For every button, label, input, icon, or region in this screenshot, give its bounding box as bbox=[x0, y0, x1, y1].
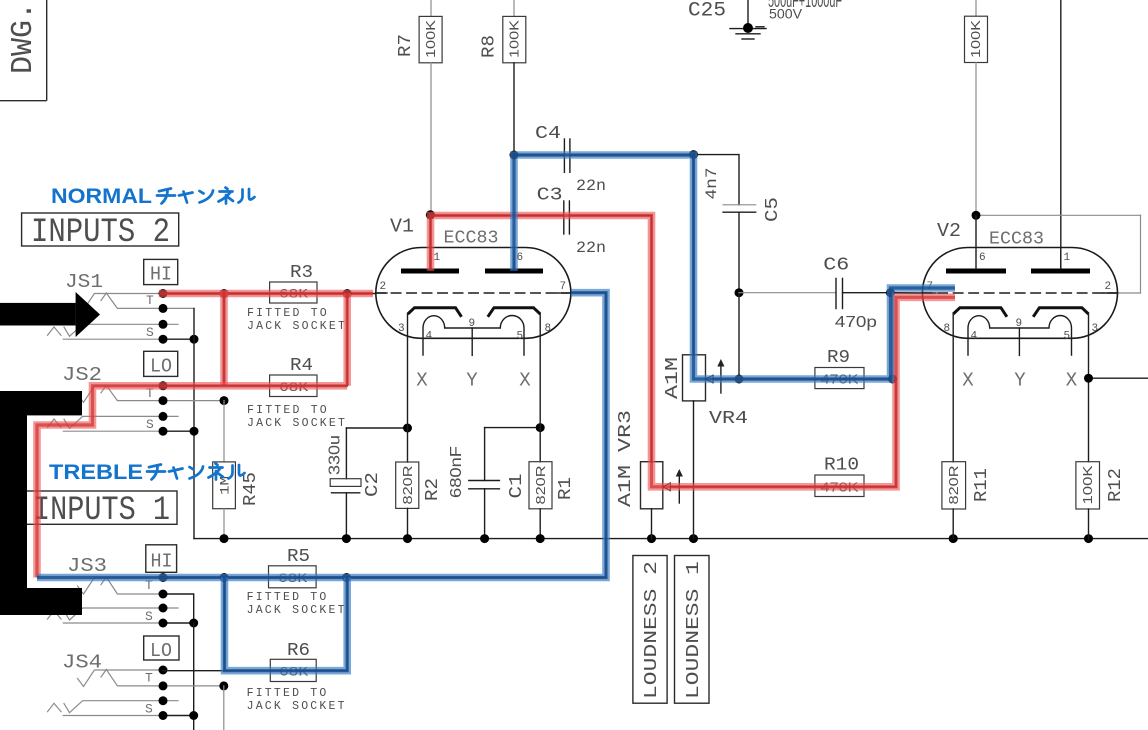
wire JS1 tip to V1 grid bbox=[163, 293, 376, 295]
svg-text:8: 8 bbox=[944, 323, 951, 335]
wire normal channel highlight JS2 tip via R4 bbox=[37, 294, 347, 578]
INPUTS 1 label box bbox=[26, 491, 177, 530]
wire C4 node down to VR4 bbox=[693, 155, 695, 355]
V1 pin numbers bbox=[380, 252, 567, 343]
JS1 contact junctions bbox=[159, 289, 168, 298]
annotation TREBLE channel heading bbox=[49, 461, 245, 484]
svg-text:S: S bbox=[145, 702, 153, 717]
resistor R2 (820R) bbox=[396, 314, 443, 539]
svg-text:TREBLE: TREBLE bbox=[49, 461, 143, 484]
wire treble channel highlight JS4 via R6 bbox=[225, 578, 348, 671]
jack JS1 contacts bbox=[48, 293, 195, 340]
HI box JS1 bbox=[144, 259, 178, 285]
svg-text:JACK SOCKET: JACK SOCKET bbox=[247, 320, 347, 333]
svg-text:22n: 22n bbox=[576, 177, 606, 195]
svg-text:470p: 470p bbox=[835, 314, 877, 331]
V1 cathodes bbox=[408, 308, 540, 317]
JS4 contact junctions bbox=[159, 666, 168, 675]
svg-text:C2: C2 bbox=[363, 472, 383, 497]
junction C1/R1 top bbox=[536, 423, 545, 432]
resistor R7 (100K) bbox=[396, 0, 442, 215]
svg-text:R12: R12 bbox=[1106, 468, 1126, 502]
wire normal channel highlight V1 plate to VR3 to V2 grid bbox=[431, 216, 956, 487]
svg-text:6: 6 bbox=[979, 252, 986, 264]
junction C5 bottom bbox=[735, 288, 744, 297]
svg-text:V1: V1 bbox=[390, 216, 414, 238]
svg-text:R3: R3 bbox=[290, 263, 313, 283]
svg-text:R11: R11 bbox=[972, 468, 992, 502]
resistor 100K (top right, V2 plate load) bbox=[965, 0, 988, 215]
svg-text:Y: Y bbox=[466, 370, 478, 392]
capacitor C3 (22n) bbox=[537, 185, 606, 257]
V2 grid line bbox=[922, 292, 1117, 294]
wire V1 pin7 stub bbox=[571, 292, 606, 294]
svg-text:9: 9 bbox=[469, 318, 476, 330]
LO box JS4 bbox=[144, 636, 179, 662]
svg-text:R8: R8 bbox=[480, 35, 500, 58]
svg-text:1: 1 bbox=[434, 252, 441, 264]
note fitted to jack socket (R4) bbox=[247, 404, 347, 430]
svg-text:3: 3 bbox=[398, 323, 405, 335]
svg-text:R7: R7 bbox=[396, 34, 416, 57]
wire treble channel highlight V1 grid to JS3 bbox=[37, 293, 606, 578]
note fitted to jack socket (R6) bbox=[247, 687, 347, 713]
svg-text:R4: R4 bbox=[290, 356, 313, 376]
svg-text:C25: C25 bbox=[688, 0, 726, 23]
svg-text:100K: 100K bbox=[1080, 465, 1095, 504]
svg-text:8: 8 bbox=[545, 323, 552, 335]
junction C4 left bbox=[510, 151, 519, 160]
svg-text:R45: R45 bbox=[241, 472, 261, 506]
junction C2/R2 top bbox=[403, 424, 412, 433]
svg-text:100K: 100K bbox=[507, 20, 522, 58]
note fitted to jack socket (R3) bbox=[247, 307, 347, 333]
svg-text:VR3: VR3 bbox=[616, 410, 636, 452]
svg-text:JACK SOCKET: JACK SOCKET bbox=[247, 604, 347, 617]
title block corner (DWG box) bbox=[0, 0, 47, 101]
wire VR4 wiper to R9 bbox=[713, 378, 893, 380]
svg-text:LOUDNESS 1: LOUDNESS 1 bbox=[684, 561, 704, 699]
svg-text:Y: Y bbox=[1014, 370, 1026, 392]
wire V2 pin1 from top edge bbox=[1060, 0, 1062, 269]
svg-text:330u: 330u bbox=[327, 435, 344, 475]
svg-text:ECC83: ECC83 bbox=[989, 230, 1044, 250]
wire V2 pin3 to next stage bbox=[1089, 314, 1148, 462]
svg-text:FITTED TO: FITTED TO bbox=[247, 404, 329, 417]
V2 X Y X labels bbox=[962, 370, 1078, 392]
wire VR3 top from C3 bbox=[651, 216, 653, 462]
wire JS3 link down through R6 bbox=[224, 578, 226, 671]
svg-text:1: 1 bbox=[1064, 252, 1071, 264]
svg-text:FITTED TO: FITTED TO bbox=[247, 307, 329, 320]
wire JS4 shunt to bottom edge bbox=[223, 686, 225, 730]
resistor R10 (470K) bbox=[815, 456, 864, 497]
V1 plate pin wires bbox=[430, 250, 432, 269]
svg-text:S: S bbox=[146, 417, 154, 432]
LOUDNESS 1 label box bbox=[675, 556, 710, 704]
svg-text:X: X bbox=[1066, 370, 1078, 392]
resistor R3 (68K) bbox=[270, 263, 317, 303]
svg-text:JACK SOCKET: JACK SOCKET bbox=[247, 700, 347, 713]
V2 plate pin wires bbox=[975, 215, 977, 268]
wire C4 line bbox=[514, 154, 694, 156]
wire link JS1/JS2 tips bbox=[223, 294, 225, 386]
svg-text:X: X bbox=[416, 370, 428, 392]
black bracket blob bbox=[0, 391, 82, 615]
svg-text:LO: LO bbox=[150, 356, 172, 378]
resistor R5 (68K) bbox=[269, 547, 317, 588]
V2 pin numbers bbox=[927, 252, 1112, 343]
junction C5 node on R9 line bbox=[735, 375, 744, 384]
valve V2 ECC83 bbox=[922, 220, 1117, 338]
svg-text:HI: HI bbox=[151, 551, 173, 573]
svg-text:820R: 820R bbox=[946, 466, 961, 505]
JS2 contact junctions bbox=[159, 381, 168, 390]
junction at ground bbox=[743, 23, 753, 33]
svg-text:9: 9 bbox=[1016, 318, 1023, 330]
wire V1 pin7 down bbox=[605, 293, 607, 578]
svg-text:R2: R2 bbox=[423, 478, 443, 501]
note fitted to jack socket (R5) bbox=[247, 591, 347, 617]
svg-text:A1M: A1M bbox=[616, 465, 636, 507]
svg-text:LOUDNESS 2: LOUDNESS 2 bbox=[642, 561, 662, 699]
svg-text:5: 5 bbox=[1064, 331, 1071, 343]
junction R5 nodes bbox=[220, 573, 229, 582]
svg-text:R6: R6 bbox=[287, 641, 310, 661]
svg-text:100K: 100K bbox=[968, 20, 983, 58]
svg-text:2: 2 bbox=[380, 281, 387, 293]
wire R9 node up to V2 grid bbox=[892, 293, 894, 379]
V1 junction plate node bbox=[426, 210, 435, 219]
valve V1 ECC83 bbox=[376, 216, 571, 339]
svg-text:A1M: A1M bbox=[663, 357, 683, 399]
jack JS3 contacts bbox=[48, 577, 194, 624]
svg-text:S: S bbox=[145, 609, 153, 624]
feedback wire pin6 to pin2 of V2 bbox=[976, 215, 1141, 293]
resistor R12 (100K) bbox=[1076, 462, 1126, 539]
svg-text:820R: 820R bbox=[400, 466, 415, 505]
jack JS4 contacts bbox=[48, 670, 224, 717]
svg-text:R5: R5 bbox=[287, 547, 310, 567]
svg-text:C1: C1 bbox=[507, 474, 527, 499]
resistor R4 (68K) bbox=[270, 356, 317, 397]
wire C25 to ground bbox=[747, 0, 749, 28]
svg-text:NORMAL: NORMAL bbox=[51, 185, 152, 208]
annotation NORMAL channel heading bbox=[51, 185, 255, 208]
resistor R9 (470K) bbox=[815, 348, 864, 389]
svg-text:V2: V2 bbox=[937, 220, 961, 242]
capacitor C5 (4n7) bbox=[694, 155, 784, 293]
svg-text:R1: R1 bbox=[556, 477, 576, 500]
svg-text:S: S bbox=[146, 325, 154, 340]
LO box JS2 bbox=[144, 351, 178, 377]
ground bbox=[730, 29, 766, 39]
svg-text:FITTED TO: FITTED TO bbox=[247, 591, 329, 604]
resistor R45 (1M) bbox=[213, 401, 261, 539]
svg-text:820R: 820R bbox=[533, 466, 548, 505]
svg-text:JS1: JS1 bbox=[65, 271, 103, 293]
svg-text:LO: LO bbox=[150, 640, 172, 662]
svg-text:INPUTS 2: INPUTS 2 bbox=[31, 214, 170, 252]
V1 heater bbox=[423, 316, 524, 356]
capacitor C4 (22n) bbox=[535, 124, 606, 195]
V1 anode plates bbox=[401, 269, 459, 274]
svg-text:C5: C5 bbox=[763, 197, 783, 222]
svg-text:22n: 22n bbox=[576, 239, 606, 257]
C25 polarity mark bbox=[756, 26, 764, 28]
svg-text:680nF: 680nF bbox=[448, 446, 465, 498]
input arrow bbox=[0, 292, 100, 337]
cathode rail bbox=[194, 538, 1148, 540]
JS3 contact junctions bbox=[159, 573, 168, 582]
wire V2 grid stub bbox=[890, 292, 922, 294]
svg-text:X: X bbox=[519, 370, 531, 392]
svg-text:T: T bbox=[146, 293, 154, 308]
wire JS2 tip through R4 bbox=[163, 385, 347, 387]
svg-text:T: T bbox=[145, 671, 153, 686]
svg-text:INPUTS 1: INPUTS 1 bbox=[33, 492, 170, 530]
V2 anode plates bbox=[946, 269, 1006, 274]
potentiometer VR4 (A1M) bbox=[663, 355, 748, 539]
svg-text:C4: C4 bbox=[535, 124, 561, 144]
V2 heater bbox=[968, 316, 1072, 356]
svg-text:FITTED TO: FITTED TO bbox=[247, 687, 329, 700]
wire normal channel highlight JS1 tip bbox=[159, 290, 373, 298]
wire treble channel highlight V1 plate to VR4 to V2 grid bbox=[514, 155, 955, 379]
wire JS3 tip through R5 to V1 grid return bbox=[163, 577, 606, 579]
wire R4 up to grid node bbox=[346, 294, 348, 386]
svg-text:100K: 100K bbox=[423, 20, 438, 58]
svg-text:DWG.: DWG. bbox=[6, 2, 41, 74]
jack JS2 contacts bbox=[48, 385, 225, 432]
electrolytic C2 (330u) bbox=[327, 428, 408, 539]
wire normal channel highlight jack link bbox=[220, 290, 228, 386]
junction V2 pin6 node bbox=[972, 211, 981, 220]
svg-text:VR4: VR4 bbox=[709, 409, 748, 429]
svg-text:7: 7 bbox=[560, 281, 567, 293]
resistor R11 (820R) bbox=[942, 314, 992, 539]
wire VR3 wiper to R10 bbox=[670, 486, 896, 488]
svg-text:4: 4 bbox=[426, 331, 433, 343]
svg-text:C3: C3 bbox=[537, 185, 563, 205]
svg-text:C6: C6 bbox=[823, 256, 849, 276]
wire C5 node down to R9 line bbox=[738, 293, 740, 379]
wire V1 plate to C3 bbox=[431, 216, 652, 269]
resistor R1 (820R) bbox=[529, 314, 576, 539]
junction V2 pin3 node bbox=[1084, 374, 1093, 383]
rail junctions bbox=[220, 534, 229, 543]
resistor R6 (68K) bbox=[270, 641, 316, 682]
svg-text:500V: 500V bbox=[769, 7, 802, 22]
LOUDNESS 2 label box bbox=[633, 556, 667, 704]
svg-text:4n7: 4n7 bbox=[703, 168, 721, 200]
jack ground bus upper bbox=[193, 308, 195, 538]
svg-text:JACK SOCKET: JACK SOCKET bbox=[247, 417, 347, 430]
svg-text:X: X bbox=[962, 370, 974, 392]
capacitor C1 (680nF) bbox=[448, 428, 540, 539]
potentiometer VR3 (A1M) bbox=[616, 410, 683, 539]
junction C4 right bbox=[689, 150, 698, 159]
V1 X Y X labels bbox=[416, 370, 531, 392]
wire R10 up to V2 grid bbox=[895, 379, 897, 487]
V2 cathodes bbox=[953, 308, 1088, 317]
svg-text:5: 5 bbox=[517, 331, 524, 343]
junction R3 node bbox=[220, 289, 229, 298]
svg-text:HI: HI bbox=[150, 264, 172, 286]
resistor R8 (100K) bbox=[480, 0, 526, 155]
capacitor C6 (470p) bbox=[739, 256, 890, 332]
svg-text:2: 2 bbox=[1105, 281, 1112, 293]
jack ground bus lower bbox=[193, 623, 195, 730]
junction R9/R10 to V2 grid bbox=[888, 375, 897, 384]
V1 grid line bbox=[376, 292, 571, 294]
HI box JS3 bbox=[146, 545, 177, 573]
INPUTS 2 label box bbox=[22, 213, 179, 252]
svg-text:R9: R9 bbox=[827, 348, 850, 368]
svg-text:ECC83: ECC83 bbox=[444, 229, 499, 249]
svg-text:3: 3 bbox=[1092, 323, 1099, 335]
svg-text:4: 4 bbox=[971, 331, 978, 343]
junction C6 right at V2 grid bbox=[886, 288, 895, 297]
svg-text:R10: R10 bbox=[824, 456, 859, 476]
